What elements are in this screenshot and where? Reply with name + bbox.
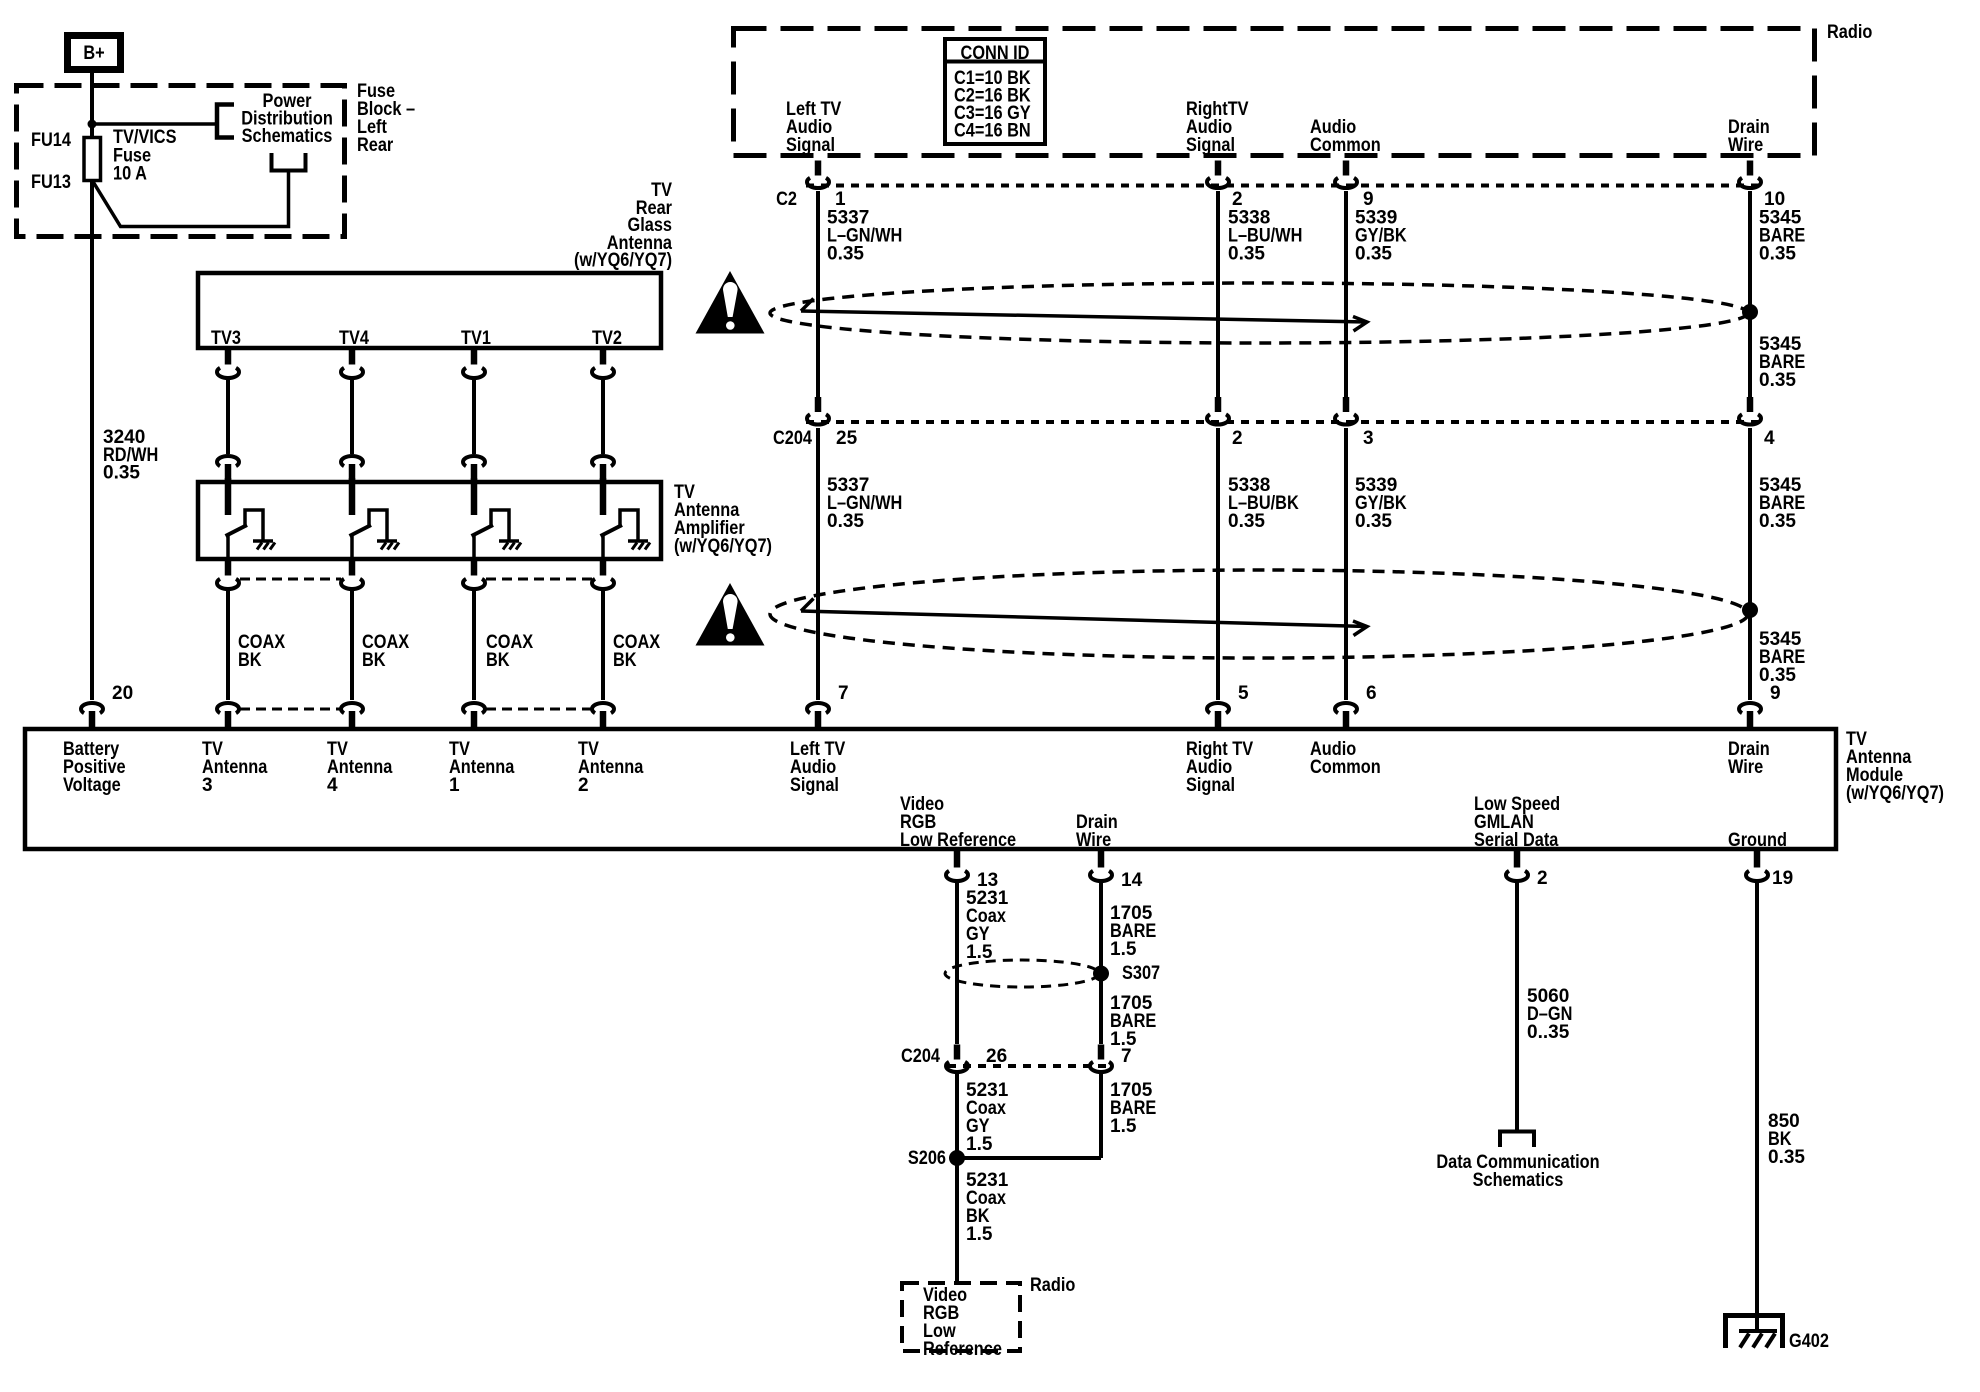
- svg-text:3: 3: [1363, 428, 1374, 449]
- svg-text:0.35: 0.35: [1759, 511, 1796, 532]
- svg-text:(w/YQ6/YQ7): (w/YQ6/YQ7): [674, 535, 772, 556]
- svg-text:4: 4: [1764, 428, 1775, 449]
- svg-text:FU13: FU13: [31, 171, 71, 192]
- svg-text:BK: BK: [486, 649, 510, 670]
- svg-text:Wire: Wire: [1728, 134, 1763, 155]
- svg-text:0.35: 0.35: [1759, 244, 1796, 265]
- svg-text:(w/YQ6/YQ7): (w/YQ6/YQ7): [574, 249, 672, 270]
- svg-text:25: 25: [836, 428, 858, 449]
- svg-text:TV1: TV1: [461, 327, 491, 348]
- svg-text:7: 7: [838, 683, 849, 704]
- svg-text:0..35: 0..35: [1527, 1022, 1570, 1043]
- svg-text:20: 20: [112, 683, 133, 704]
- svg-text:10 A: 10 A: [113, 162, 147, 183]
- svg-text:4: 4: [327, 775, 338, 796]
- svg-text:1.5: 1.5: [966, 942, 993, 963]
- svg-text:FU14: FU14: [31, 129, 71, 150]
- svg-text:Signal: Signal: [1186, 774, 1235, 795]
- svg-text:C2: C2: [776, 188, 797, 209]
- svg-text:CONN ID: CONN ID: [961, 42, 1030, 63]
- svg-text:Radio: Radio: [1827, 21, 1873, 42]
- svg-text:Signal: Signal: [790, 774, 839, 795]
- svg-text:(w/YQ6/YQ7): (w/YQ6/YQ7): [1846, 782, 1944, 803]
- svg-text:1.5: 1.5: [966, 1224, 993, 1245]
- svg-text:2: 2: [1537, 868, 1548, 889]
- svg-text:19: 19: [1772, 868, 1793, 889]
- svg-text:0.35: 0.35: [1759, 370, 1796, 391]
- svg-text:Wire: Wire: [1076, 829, 1111, 850]
- svg-text:Voltage: Voltage: [63, 774, 121, 795]
- svg-text:2: 2: [1232, 428, 1243, 449]
- svg-text:Radio: Radio: [1030, 1274, 1076, 1295]
- svg-text:BK: BK: [238, 649, 262, 670]
- svg-text:3: 3: [202, 775, 213, 796]
- svg-text:7: 7: [1121, 1046, 1132, 1067]
- svg-text:0.35: 0.35: [827, 244, 864, 265]
- svg-text:0.35: 0.35: [1768, 1147, 1805, 1168]
- svg-text:BK: BK: [362, 649, 386, 670]
- svg-text:Ground: Ground: [1728, 829, 1787, 850]
- svg-text:S206: S206: [908, 1147, 946, 1168]
- svg-text:BK: BK: [613, 649, 637, 670]
- svg-text:TV4: TV4: [339, 327, 369, 348]
- svg-text:TV3: TV3: [211, 327, 241, 348]
- svg-text:Serial Data: Serial Data: [1474, 829, 1559, 850]
- svg-text:Rear: Rear: [357, 134, 393, 155]
- svg-text:0.35: 0.35: [1355, 244, 1392, 265]
- svg-text:Schematics: Schematics: [242, 125, 333, 146]
- svg-text:6: 6: [1366, 683, 1377, 704]
- svg-text:5: 5: [1238, 683, 1249, 704]
- svg-text:Reference: Reference: [923, 1338, 1002, 1359]
- svg-text:C204: C204: [901, 1045, 940, 1066]
- svg-text:0.35: 0.35: [827, 511, 864, 532]
- svg-text:1.5: 1.5: [966, 1134, 993, 1155]
- svg-text:C204: C204: [773, 427, 812, 448]
- svg-text:S307: S307: [1122, 962, 1160, 983]
- svg-text:Common: Common: [1310, 756, 1381, 777]
- svg-text:1.5: 1.5: [1110, 939, 1137, 960]
- svg-text:9: 9: [1770, 683, 1781, 704]
- svg-text:0.35: 0.35: [1228, 511, 1265, 532]
- svg-text:Low Reference: Low Reference: [900, 829, 1016, 850]
- svg-text:1: 1: [449, 775, 460, 796]
- svg-text:0.35: 0.35: [1228, 244, 1265, 265]
- svg-text:Wire: Wire: [1728, 756, 1763, 777]
- svg-text:Schematics: Schematics: [1473, 1169, 1564, 1190]
- svg-text:C4=16 BN: C4=16 BN: [954, 119, 1031, 140]
- svg-text:G402: G402: [1789, 1330, 1829, 1351]
- svg-text:1.5: 1.5: [1110, 1116, 1137, 1137]
- svg-text:B+: B+: [83, 42, 104, 63]
- svg-text:0.35: 0.35: [1355, 511, 1392, 532]
- svg-text:2: 2: [578, 775, 589, 796]
- svg-text:26: 26: [986, 1046, 1007, 1067]
- svg-text:14: 14: [1121, 870, 1143, 891]
- svg-text:TV2: TV2: [592, 327, 622, 348]
- svg-text:0.35: 0.35: [103, 463, 140, 484]
- svg-text:Signal: Signal: [786, 134, 835, 155]
- svg-text:Signal: Signal: [1186, 134, 1235, 155]
- svg-text:Common: Common: [1310, 134, 1381, 155]
